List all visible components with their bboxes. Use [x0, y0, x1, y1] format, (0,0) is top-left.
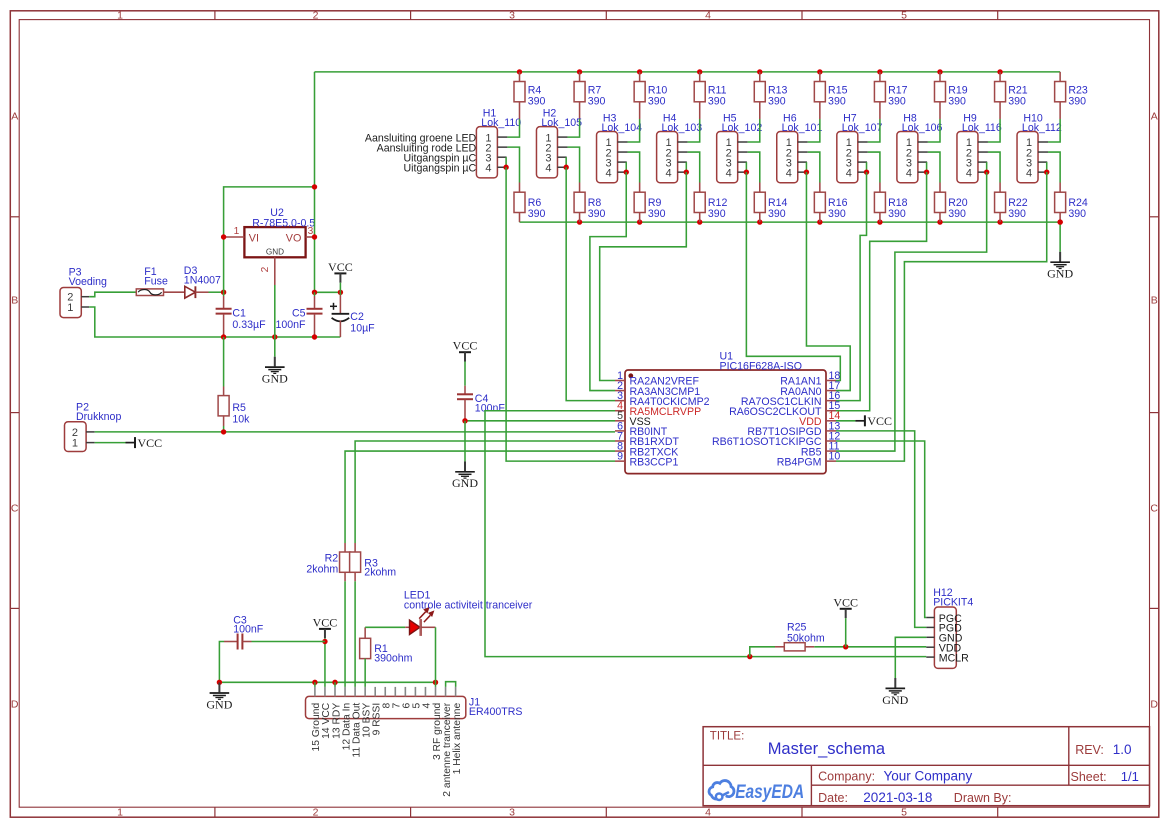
pin 6 of U1 RB0INT: [615, 420, 668, 438]
node junction: [503, 165, 508, 170]
wire: [314, 72, 316, 292]
svg-text:ER400TRS: ER400TRS: [469, 706, 523, 718]
pin 1 of U2: [225, 226, 244, 237]
pin 4 of H6: [798, 171, 807, 173]
svg-text:Drukknop: Drukknop: [76, 411, 121, 423]
node junction: [804, 169, 809, 174]
svg-text:A: A: [11, 111, 18, 123]
resistor R10 390: [634, 72, 667, 119]
node junction: [924, 169, 929, 174]
pin 4 of J1: [422, 687, 433, 709]
title block: [703, 727, 1149, 806]
node junction: [221, 429, 226, 434]
node junction: [697, 69, 702, 74]
wire: [836, 420, 855, 422]
wire H12 GND: [895, 637, 926, 678]
node junction: [624, 169, 629, 174]
wire: [435, 627, 437, 682]
pin 11 of U1 RB5: [801, 440, 840, 458]
ground at VSS: [452, 421, 478, 490]
pin 3 of U1 RA4T0CKICMP2: [615, 390, 710, 408]
svg-text:390: 390: [648, 96, 666, 108]
svg-text:C1: C1: [232, 308, 246, 320]
VCC flag: [126, 436, 163, 450]
pin 8 of U1 RB2TXCK: [615, 440, 678, 458]
connector P3: [60, 266, 107, 317]
pin 2 antenne tranceiver of J1: [442, 687, 453, 797]
wire VSS to GND: [465, 420, 615, 422]
pin 1 of H1: [497, 136, 507, 138]
resistor R24 390: [1055, 183, 1088, 223]
svg-text:Uitgangspin µC: Uitgangspin µC: [404, 163, 477, 175]
svg-text:5: 5: [901, 9, 907, 21]
pin 5 of U1 VSS: [615, 410, 651, 428]
svg-text:RB4PGM: RB4PGM: [777, 456, 822, 468]
voltage regulator U2 R-78E5.0-0.5: [244, 207, 315, 257]
pin 12 Data In of J1: [341, 687, 352, 750]
wire U1 RA5MCLRVPP to H12: [485, 411, 926, 657]
node junction: [864, 169, 869, 174]
svg-text:C: C: [11, 503, 19, 515]
svg-text:Lok_107: Lok_107: [842, 122, 883, 134]
wire: [688, 119, 700, 142]
svg-text:100nF: 100nF: [275, 319, 306, 331]
pin 3 of U2: [306, 226, 315, 237]
pin 14 of U1 VDD: [799, 410, 840, 428]
node junction: [757, 219, 762, 224]
svg-text:MCLR: MCLR: [939, 652, 969, 664]
node junction: [1057, 219, 1062, 224]
svg-text:2kohm: 2kohm: [306, 563, 338, 575]
svg-text:390: 390: [1008, 208, 1026, 220]
connector H1 Lok_110: [476, 108, 521, 178]
VCC flag at VDD: [855, 414, 892, 428]
node junction: [1044, 169, 1049, 174]
svg-text:VCC: VCC: [328, 260, 353, 274]
connector H3 Lok_104: [597, 112, 643, 182]
resistor R18 390: [874, 183, 907, 223]
wire H7 pin4 to U1 RA7OSC1CLKIN: [836, 172, 867, 401]
pin 2 of U1 RA3AN3CMP1: [615, 380, 700, 398]
svg-text:D: D: [1150, 699, 1158, 711]
pin 9 of U1 RB3CCP1: [615, 451, 678, 469]
wire: [435, 682, 437, 687]
wire: [745, 162, 747, 172]
svg-text:Lok_102: Lok_102: [722, 122, 763, 134]
resistor R23 390: [1055, 72, 1088, 119]
pin 3 of H6: [798, 161, 807, 163]
wire: [1046, 162, 1048, 172]
svg-text:390: 390: [888, 96, 906, 108]
pin 10 of U1 RB4PGM: [777, 451, 841, 469]
IC U1 PIC16F628A-ISO: [625, 351, 826, 474]
pin 2 of H7: [858, 151, 868, 153]
svg-text:C: C: [1150, 503, 1158, 515]
node junction: [221, 334, 226, 339]
resistor R13 390: [754, 72, 787, 119]
wire R2 to J1 Data In: [344, 581, 346, 687]
node junction: [997, 69, 1002, 74]
pin 1 of P2: [86, 442, 95, 444]
node junction: [563, 165, 568, 170]
svg-text:390: 390: [768, 208, 786, 220]
svg-text:50kohm: 50kohm: [787, 633, 825, 645]
resistor R8 390: [574, 183, 605, 223]
svg-text:B: B: [1151, 295, 1158, 307]
svg-text:Lok_112: Lok_112: [1022, 122, 1062, 134]
connector J1 ER400TRS: [306, 696, 523, 718]
svg-text:VCC: VCC: [833, 595, 858, 609]
pin 1 of H2: [557, 136, 567, 138]
node junction: [843, 644, 848, 649]
resistor R25 50kohm: [775, 622, 825, 651]
ground: [206, 683, 232, 712]
wire: [805, 162, 807, 172]
svg-text:4: 4: [705, 806, 711, 818]
wire R3 to J1 Data Out: [354, 581, 356, 687]
wire VCC to J1 pin14: [324, 638, 326, 687]
wire: [926, 162, 928, 172]
svg-text:2: 2: [313, 806, 319, 818]
VCC flag: [313, 615, 338, 638]
pin 3 of H9: [978, 161, 987, 163]
wire H3 pin4 to U1 RA3AN3CMP1: [590, 172, 626, 390]
wire: [808, 119, 820, 142]
wire: [565, 157, 567, 167]
node junction: [877, 69, 882, 74]
capacitor C2 10uF polarized: [330, 292, 375, 337]
svg-text:GND: GND: [266, 248, 284, 257]
svg-text:390: 390: [648, 208, 666, 220]
svg-text:Lok_110: Lok_110: [481, 117, 521, 129]
pin 1 of H7: [858, 141, 868, 143]
capacitor C1 0.33uF: [216, 292, 267, 337]
wire: [1048, 152, 1060, 182]
pin 2 of H8: [918, 151, 928, 153]
svg-text:2: 2: [313, 9, 319, 21]
resistor R17 390: [874, 72, 907, 119]
pin 13 of U1 RB7T1OSIPGD: [747, 420, 840, 438]
connector H2 Lok_105: [536, 108, 582, 178]
pin MCLR of H12: [926, 652, 969, 664]
node junction: [684, 169, 689, 174]
pin 15 Ground of J1: [311, 687, 322, 752]
pin 1 of P3: [81, 306, 89, 308]
wire MCLR to R25: [750, 647, 775, 657]
svg-text:GND: GND: [1047, 267, 1073, 281]
resistor R12 390: [694, 183, 727, 223]
svg-text:Fuse: Fuse: [144, 275, 168, 287]
svg-text:1: 1: [72, 437, 78, 449]
svg-text:2: 2: [260, 266, 271, 272]
svg-text:390: 390: [948, 208, 966, 220]
wire: [625, 162, 627, 172]
svg-text:Company:: Company:: [818, 769, 875, 783]
resistor R7 390: [574, 72, 605, 119]
svg-text:Lok_103: Lok_103: [662, 122, 703, 134]
wire: [314, 682, 316, 687]
svg-text:Lok_101: Lok_101: [782, 122, 823, 134]
node junction: [637, 219, 642, 224]
pin 17 of U1 RA0AN0: [780, 380, 840, 398]
svg-text:Voeding: Voeding: [69, 276, 107, 288]
pin 4 of H1: [497, 166, 506, 168]
VCC flag at C4: [453, 339, 478, 362]
node junction: [312, 184, 317, 189]
svg-text:3: 3: [509, 806, 515, 818]
svg-text:Lok_105: Lok_105: [541, 117, 582, 129]
svg-text:4: 4: [545, 162, 551, 174]
svg-text:GND: GND: [262, 372, 288, 386]
wire H4 pin4 to U1 RA2AN2VREF: [600, 172, 687, 380]
svg-text:3: 3: [509, 9, 515, 21]
pin 15 of U1 RA6OSC2CLKOUT: [729, 400, 840, 418]
node junction: [517, 69, 522, 74]
svg-text:4: 4: [605, 167, 611, 179]
svg-text:GND: GND: [882, 693, 908, 707]
wire: [986, 162, 988, 172]
capacitor C3 100nF: [224, 615, 264, 650]
node junction at VO: [312, 234, 317, 239]
svg-text:GND: GND: [452, 476, 478, 490]
svg-text:RB3CCP1: RB3CCP1: [630, 456, 679, 468]
wire: [89, 292, 136, 297]
svg-text:VCC: VCC: [867, 414, 892, 428]
capacitor C4 100nF: [457, 362, 505, 421]
node junction: [984, 169, 989, 174]
wire: [209, 291, 224, 293]
pin 14 VCC of J1: [321, 687, 332, 739]
diode D3 1N4007: [164, 265, 222, 298]
pin 4 of H2: [557, 166, 566, 168]
svg-text:4: 4: [666, 167, 672, 179]
node junction: [997, 219, 1002, 224]
pin 2 of H3: [618, 151, 628, 153]
resistor R20 390: [934, 183, 967, 223]
pin PGD of H12: [926, 623, 962, 635]
connector H12 PICKIT4: [933, 587, 973, 668]
wire: [224, 187, 315, 292]
pin 2 of H5: [738, 151, 748, 153]
pin VDD of H12: [926, 643, 961, 655]
svg-text:PICKIT4: PICKIT4: [933, 597, 973, 609]
pin 4 of H8: [918, 171, 927, 173]
pin 12 of U1 RB6T1OSOT1CKIPGC: [712, 430, 840, 448]
pin 4 of H9: [978, 171, 987, 173]
wire H8 pin4 to U1 RA6OSC2CLKOUT: [836, 172, 927, 411]
svg-text:EasyEDA: EasyEDA: [735, 781, 804, 803]
wire to U1 RB0INT: [95, 431, 615, 433]
wire: [928, 119, 940, 142]
svg-text:GND: GND: [206, 697, 232, 711]
svg-text:390: 390: [888, 208, 906, 220]
resistor R11 390: [694, 72, 726, 119]
wire: [315, 291, 341, 293]
node junction: [877, 219, 882, 224]
wire: [507, 119, 519, 137]
wire H6 pin4 to U1 RA0AN0: [806, 172, 850, 390]
pin 1 of H6: [798, 141, 808, 143]
svg-text:A: A: [1151, 111, 1158, 123]
wire: [365, 626, 405, 628]
pin 4 of H7: [858, 171, 867, 173]
svg-text:D: D: [11, 699, 19, 711]
node junction: [312, 290, 317, 295]
svg-text:Sheet:: Sheet:: [1071, 770, 1107, 784]
svg-text:4: 4: [726, 167, 732, 179]
svg-text:C5: C5: [292, 308, 306, 320]
wire: [748, 152, 760, 182]
wire: [334, 682, 336, 687]
svg-text:Master_schema: Master_schema: [768, 740, 886, 758]
svg-text:REV:: REV:: [1075, 743, 1104, 757]
node junction: [937, 69, 942, 74]
resistor R5 10k: [218, 337, 250, 432]
node junction: [433, 680, 438, 685]
node junction: [332, 680, 337, 685]
pin 4 of H10: [1038, 171, 1047, 173]
pin 2 of H2: [557, 146, 567, 148]
EasyEDA logo: [709, 781, 804, 804]
pin 18 of U1 RA1AN1: [780, 370, 840, 388]
svg-text:0.33µF: 0.33µF: [232, 319, 266, 331]
fuse F1: [136, 266, 168, 296]
svg-text:2021-03-18: 2021-03-18: [863, 790, 932, 805]
svg-text:VCC: VCC: [313, 615, 338, 629]
node junction MCLR: [747, 654, 752, 659]
node junction: [462, 418, 467, 423]
resistor R22 390: [995, 183, 1028, 223]
wire U1 RB7T1OSIPGD to H12 PGD: [836, 431, 926, 628]
connector H8 Lok_106: [897, 112, 943, 182]
pin 1 of H5: [738, 141, 748, 143]
svg-text:390: 390: [1008, 96, 1026, 108]
connector H7 Lok_107: [837, 112, 883, 182]
node junction: [637, 69, 642, 74]
wire: [339, 283, 341, 293]
pin 2 of H4: [678, 151, 688, 153]
connector H10 Lok_112: [1017, 112, 1062, 182]
svg-text:B: B: [11, 295, 18, 307]
ground at R24: [1047, 222, 1073, 281]
resistor R16 390: [814, 183, 847, 223]
wire: [988, 119, 1000, 142]
pin 4 of H4: [678, 171, 687, 173]
wire: [866, 162, 868, 172]
svg-text:390: 390: [768, 96, 786, 108]
pin 1 of H8: [918, 141, 928, 143]
svg-text:TITLE:: TITLE:: [710, 730, 745, 742]
resistor R1 390ohm: [360, 627, 413, 687]
wire: [507, 147, 519, 182]
ground: [262, 285, 288, 386]
resistor R6 390: [514, 183, 545, 223]
pin 3 of H3: [618, 161, 627, 163]
wire H10 pin4 to U1 RB4PGM: [836, 172, 1047, 461]
pin 6 of J1: [402, 687, 413, 709]
pin 2 of H10: [1038, 151, 1048, 153]
svg-text:390: 390: [528, 96, 546, 108]
svg-text:390: 390: [528, 208, 546, 220]
svg-text:VI: VI: [249, 232, 259, 244]
svg-text:1N4007: 1N4007: [184, 274, 221, 286]
svg-text:Lok_116: Lok_116: [962, 122, 1002, 134]
pin 7 of J1: [392, 687, 403, 709]
svg-text:390: 390: [588, 96, 606, 108]
wire bottom GND rail: [520, 221, 1061, 223]
pin 4 of H5: [738, 171, 747, 173]
resistor R14 390: [754, 183, 787, 223]
pin 3 of H10: [1038, 161, 1047, 163]
pin 2 of H1: [497, 146, 507, 148]
svg-text:390: 390: [828, 96, 846, 108]
svg-text:Your Company: Your Company: [884, 768, 973, 783]
node junction: [817, 69, 822, 74]
pin 3 of H5: [738, 161, 747, 163]
svg-text:VO: VO: [286, 232, 302, 244]
svg-text:Date:: Date:: [818, 791, 848, 805]
pin 8 of J1: [382, 687, 393, 709]
svg-text:1/1: 1/1: [1121, 769, 1139, 784]
svg-text:390: 390: [828, 208, 846, 220]
pin 1 of H4: [678, 141, 688, 143]
pin 1 Helix antenne of J1: [452, 687, 463, 774]
pin 4 of H3: [618, 171, 627, 173]
pin 5 of J1: [412, 687, 423, 709]
wire: [988, 152, 1000, 182]
node junction: [937, 219, 942, 224]
node junction: [697, 219, 702, 224]
node junction at VI: [221, 234, 226, 239]
pin 10 BSY of J1: [361, 687, 372, 738]
wire: [1048, 119, 1060, 142]
svg-text:9: 9: [617, 451, 623, 463]
pin 2 of H6: [798, 151, 808, 153]
node junction: [217, 680, 222, 685]
connector H6 Lok_101: [777, 112, 823, 182]
wire: [567, 119, 579, 137]
svg-text:4: 4: [786, 167, 792, 179]
svg-text:Lok_104: Lok_104: [601, 122, 642, 134]
svg-text:controle activiteit tranceiver: controle activiteit tranceiver: [404, 599, 533, 611]
wire: [845, 618, 847, 647]
pin 7 of U1 RB1RXDT: [615, 430, 679, 448]
resistor R4 390: [514, 72, 545, 119]
wire: [808, 152, 820, 182]
svg-text:Drawn By:: Drawn By:: [954, 791, 1012, 805]
pin 2 of H9: [978, 151, 988, 153]
svg-text:VCC: VCC: [453, 339, 478, 353]
wire: [928, 152, 940, 182]
node junction: [817, 219, 822, 224]
svg-text:1: 1: [117, 806, 123, 818]
wire: [868, 152, 880, 182]
pin 1 mark: [628, 373, 633, 378]
pin 13 RDY of J1: [331, 687, 342, 739]
svg-text:100nF: 100nF: [233, 624, 264, 636]
svg-text:10µF: 10µF: [350, 322, 375, 334]
wire: [219, 642, 224, 683]
svg-text:4: 4: [1026, 167, 1032, 179]
pin 3 RF ground of J1: [432, 687, 443, 760]
capacitor C5 100nF: [275, 292, 322, 337]
labels for H1 pins: [365, 132, 477, 174]
pin 3 of H8: [918, 161, 927, 163]
svg-text:390: 390: [1068, 208, 1086, 220]
wire antenna loop J1 pins 1-2: [446, 682, 456, 687]
wire U1 RB2TXCK to R2: [345, 451, 615, 543]
svg-text:R-78E5.0-0.5: R-78E5.0-0.5: [252, 217, 315, 229]
